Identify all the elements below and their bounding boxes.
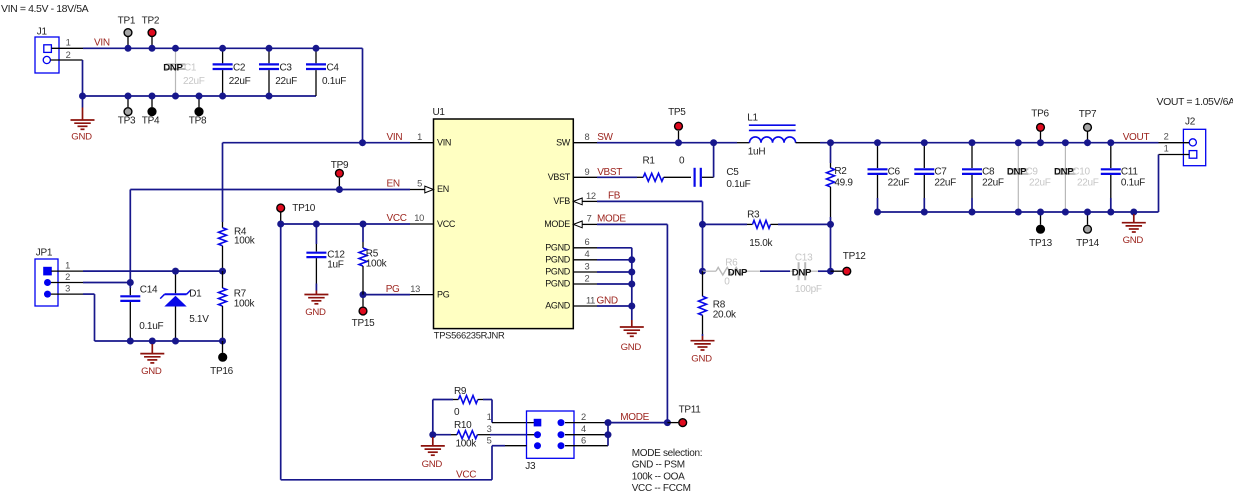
svg-text:GND: GND bbox=[621, 342, 642, 353]
capacitor C12 bbox=[315, 224, 317, 244]
svg-text:DNP: DNP bbox=[728, 268, 748, 279]
junction FB node bbox=[699, 221, 706, 228]
wire VBST to R1 bbox=[597, 176, 637, 178]
wire MODE to TP11 bbox=[608, 422, 667, 424]
capacitor C1 DNP bbox=[175, 48, 177, 63]
svg-text:49.9: 49.9 bbox=[834, 177, 853, 188]
capacitor C7 bbox=[923, 143, 925, 168]
svg-text:0: 0 bbox=[454, 407, 460, 418]
svg-text:C5: C5 bbox=[726, 167, 739, 178]
svg-text:R1: R1 bbox=[643, 156, 656, 167]
junction L1 out R2 bbox=[827, 139, 834, 146]
svg-text:FB: FB bbox=[608, 191, 621, 202]
wire VCC bottom run bbox=[281, 479, 492, 481]
capacitor C3 bbox=[268, 48, 270, 63]
wire J3 pin6 bbox=[565, 445, 608, 447]
svg-text:1: 1 bbox=[417, 132, 422, 142]
svg-text:J3: J3 bbox=[525, 461, 536, 472]
capacitor C5 bbox=[693, 168, 695, 187]
svg-text:AGND: AGND bbox=[545, 301, 571, 311]
U1 pin 8 SW stub bbox=[573, 142, 597, 144]
wire J2 pin1 stub bbox=[1159, 154, 1190, 156]
test point TP8 bbox=[198, 96, 200, 107]
svg-text:TP5: TP5 bbox=[668, 107, 686, 118]
svg-text:C8: C8 bbox=[982, 167, 995, 178]
svg-text:2: 2 bbox=[1164, 131, 1169, 141]
svg-text:C13: C13 bbox=[795, 253, 813, 264]
connector JP1 bbox=[35, 247, 58, 306]
svg-text:TP16: TP16 bbox=[210, 366, 233, 377]
svg-text:4: 4 bbox=[581, 424, 586, 434]
svg-text:TP9: TP9 bbox=[331, 160, 349, 171]
wire JP1 pin2 to EN C14 node bbox=[83, 282, 130, 284]
wire J1 pin2 stub bbox=[50, 59, 82, 61]
connector J1 bbox=[35, 27, 59, 74]
svg-text:VBST: VBST bbox=[548, 172, 571, 182]
svg-text:15.0k: 15.0k bbox=[749, 238, 773, 249]
svg-text:GND: GND bbox=[422, 459, 443, 470]
svg-text:22uF: 22uF bbox=[1029, 178, 1051, 189]
svg-text:L1: L1 bbox=[747, 113, 758, 124]
wire VOUT rail bbox=[820, 142, 1159, 144]
ground bottom-left bbox=[149, 338, 156, 345]
resistor R9 bbox=[433, 399, 453, 401]
wire VCC vertical down bbox=[280, 224, 282, 480]
capacitor C2 bbox=[222, 48, 224, 63]
wire bottom-left gnd rail bbox=[95, 340, 223, 342]
svg-text:0.1uF: 0.1uF bbox=[139, 321, 163, 332]
svg-text:22uF: 22uF bbox=[229, 76, 251, 87]
test point TP7 bbox=[1087, 132, 1089, 143]
svg-text:3: 3 bbox=[487, 424, 492, 434]
svg-text:C3: C3 bbox=[280, 62, 293, 73]
junction EN C14 bbox=[127, 279, 134, 286]
svg-text:TP12: TP12 bbox=[843, 251, 866, 262]
wire VIN junction to pin1 bbox=[363, 142, 411, 144]
svg-text:5: 5 bbox=[417, 179, 422, 189]
ground under R8 bbox=[702, 334, 704, 336]
svg-text:100pF: 100pF bbox=[795, 284, 822, 295]
test point TP2 bbox=[151, 37, 153, 48]
svg-text:EN: EN bbox=[437, 184, 449, 194]
svg-text:TP6: TP6 bbox=[1031, 109, 1049, 120]
svg-text:GND: GND bbox=[597, 295, 618, 306]
wire VCC row bbox=[281, 223, 410, 225]
svg-text:R9: R9 bbox=[454, 386, 467, 397]
svg-text:2: 2 bbox=[66, 50, 71, 60]
svg-text:R2: R2 bbox=[834, 166, 847, 177]
resistor R6 DNP bbox=[703, 270, 717, 272]
svg-text:GND -- PSM: GND -- PSM bbox=[632, 460, 685, 471]
svg-text:DNP: DNP bbox=[792, 268, 812, 279]
wire VIN rail drop to U1 row bbox=[362, 48, 364, 142]
test point TP3 bbox=[127, 96, 129, 107]
wire MODE vertical down to J3 bbox=[666, 224, 668, 422]
svg-text:VOUT: VOUT bbox=[1123, 132, 1150, 143]
ground under PGND bus bbox=[631, 316, 633, 320]
junction R3 right at R2 bbox=[827, 221, 834, 228]
test point TP4 bbox=[151, 96, 153, 107]
svg-text:PGND: PGND bbox=[545, 279, 571, 289]
svg-text:PGND: PGND bbox=[545, 243, 571, 253]
svg-text:8: 8 bbox=[585, 132, 590, 142]
wire VIN top rail bbox=[83, 47, 363, 49]
test point TP12 bbox=[831, 270, 843, 272]
test point TP5 bbox=[678, 131, 680, 143]
svg-text:3: 3 bbox=[585, 261, 590, 271]
svg-text:2: 2 bbox=[585, 273, 590, 283]
svg-text:22uF: 22uF bbox=[982, 178, 1004, 189]
test point TP13 bbox=[1040, 212, 1042, 225]
U1 pin 10 VCC stub bbox=[410, 223, 434, 225]
capacitor C6 bbox=[877, 143, 879, 168]
wire EN down to JP1 pin2 bbox=[129, 190, 131, 283]
wire C5 up to SW bbox=[713, 143, 715, 178]
diode D1 zener bbox=[175, 271, 177, 293]
svg-text:VCC: VCC bbox=[437, 219, 456, 229]
svg-text:VCC -- FCCM: VCC -- FCCM bbox=[632, 483, 691, 494]
connector J3 bbox=[525, 411, 574, 472]
svg-text:100k: 100k bbox=[366, 259, 388, 270]
svg-text:VCC: VCC bbox=[456, 469, 476, 480]
svg-text:VIN = 4.5V - 18V/5A: VIN = 4.5V - 18V/5A bbox=[1, 3, 89, 15]
wire JP1 pin1 to R4 R7 node bbox=[83, 270, 223, 272]
wire R2 bottom vertical bbox=[830, 224, 832, 271]
wire J1 pin2 down to gnd rail bbox=[82, 60, 84, 96]
wire J3 pin4 bbox=[565, 434, 608, 436]
wire VIN row left to R4 bbox=[223, 142, 363, 144]
svg-text:U1: U1 bbox=[433, 107, 446, 118]
ground under R10 bbox=[432, 435, 434, 437]
wire J3 pin3 lead bbox=[527, 434, 538, 436]
wire PGND bus vertical bbox=[631, 248, 633, 316]
capacitor C13 DNP bbox=[790, 270, 795, 272]
wire PG row bbox=[363, 294, 410, 296]
wire J3 pin5 to VCC bbox=[505, 445, 527, 447]
svg-text:VOUT = 1.05V/6A: VOUT = 1.05V/6A bbox=[1157, 96, 1233, 108]
svg-text:PG: PG bbox=[437, 289, 450, 299]
resistor R2 bbox=[830, 143, 832, 163]
svg-text:0.1uF: 0.1uF bbox=[726, 179, 750, 190]
capacitor C9 DNP bbox=[1017, 143, 1019, 168]
wire R9 right vertical to J3 pin1 bbox=[491, 400, 493, 423]
U1 pin 5 EN stub with input arrow bbox=[410, 189, 425, 191]
svg-text:TP7: TP7 bbox=[1079, 109, 1097, 120]
test point TP11 bbox=[667, 422, 678, 424]
svg-text:TP8: TP8 bbox=[189, 116, 207, 127]
wire J3 pin2 to MODE node bbox=[565, 422, 608, 424]
svg-text:TP14: TP14 bbox=[1076, 238, 1099, 249]
ground under J1 bbox=[82, 96, 84, 108]
wire FB down to divider bbox=[702, 201, 704, 224]
capacitor C11 bbox=[1110, 143, 1112, 168]
svg-text:DNP: DNP bbox=[1054, 167, 1074, 178]
wire JP1 pin1 stub bbox=[51, 270, 83, 272]
svg-text:C9: C9 bbox=[1026, 167, 1039, 178]
test point TP15 bbox=[362, 295, 364, 307]
svg-text:12: 12 bbox=[586, 191, 596, 201]
U1 pin 7 MODE stub with input arrow bbox=[573, 221, 582, 228]
svg-text:DNP: DNP bbox=[1007, 167, 1027, 178]
svg-text:1: 1 bbox=[1164, 144, 1169, 154]
wire R9 left vertical bbox=[432, 400, 434, 435]
svg-text:GND: GND bbox=[691, 354, 712, 365]
svg-text:TP13: TP13 bbox=[1029, 238, 1052, 249]
svg-text:R3: R3 bbox=[747, 210, 760, 221]
test point TP6 bbox=[1040, 132, 1042, 143]
svg-text:TP10: TP10 bbox=[292, 203, 315, 214]
svg-text:GND: GND bbox=[1123, 235, 1144, 246]
svg-text:EN: EN bbox=[387, 179, 400, 190]
svg-text:MODE: MODE bbox=[620, 412, 649, 423]
svg-text:100k: 100k bbox=[234, 236, 256, 247]
test point TP14 bbox=[1087, 212, 1089, 225]
svg-text:TP3: TP3 bbox=[118, 116, 136, 127]
resistor R4 bbox=[222, 143, 224, 222]
svg-text:TP11: TP11 bbox=[679, 404, 702, 415]
svg-text:PGND: PGND bbox=[545, 267, 571, 277]
ground at output bbox=[1130, 209, 1137, 216]
test point TP1 bbox=[127, 37, 129, 48]
wire J1 pin1 stub bbox=[51, 47, 83, 49]
resistor R1 bbox=[637, 176, 643, 178]
svg-text:10: 10 bbox=[414, 213, 424, 223]
wire J3 pin1 lead bbox=[492, 422, 538, 424]
svg-text:0: 0 bbox=[679, 156, 685, 167]
svg-text:MODE: MODE bbox=[544, 219, 570, 229]
U1 pin 9 VBST stub bbox=[573, 176, 597, 178]
junction input gnd rail at J1 bbox=[79, 93, 86, 100]
junction R4 R7 bbox=[219, 268, 226, 275]
junction MODE TP11 bbox=[664, 419, 671, 426]
svg-text:VFB: VFB bbox=[553, 196, 570, 206]
svg-text:4: 4 bbox=[585, 249, 590, 259]
capacitor C4 bbox=[315, 48, 317, 63]
junction R6 node bbox=[699, 268, 706, 275]
U1 pin 1 VIN stub bbox=[410, 142, 434, 144]
wire C13 to R2 bottom bbox=[818, 270, 831, 272]
svg-text:D1: D1 bbox=[189, 289, 202, 300]
svg-text:6: 6 bbox=[581, 435, 586, 445]
svg-text:1uH: 1uH bbox=[748, 147, 766, 158]
U1 pin 11 AGND stub bbox=[573, 305, 597, 307]
svg-text:5.1V: 5.1V bbox=[189, 314, 209, 325]
resistor R7 bbox=[222, 271, 224, 288]
svg-text:3: 3 bbox=[65, 284, 70, 294]
U1 pin 13 PG stub bbox=[410, 294, 434, 296]
svg-text:SW: SW bbox=[597, 132, 613, 143]
junction TP12 node bbox=[827, 268, 834, 275]
svg-text:JP1: JP1 bbox=[36, 247, 53, 258]
wire JP1 pin2 stub bbox=[51, 282, 83, 284]
svg-text:VIN: VIN bbox=[437, 137, 451, 147]
connector J2 bbox=[1183, 117, 1205, 166]
wire FB node down bbox=[702, 224, 704, 271]
svg-text:5: 5 bbox=[487, 435, 492, 445]
svg-text:TP1: TP1 bbox=[118, 16, 136, 27]
svg-text:VCC: VCC bbox=[387, 213, 407, 224]
wire input bottom rail bbox=[83, 95, 317, 97]
svg-text:100k: 100k bbox=[456, 439, 478, 450]
resistor R10 bbox=[429, 431, 436, 438]
svg-text:C1: C1 bbox=[184, 62, 197, 73]
wire JP1 pin3 stub bbox=[51, 293, 83, 295]
svg-text:1: 1 bbox=[66, 38, 71, 48]
svg-text:C4: C4 bbox=[327, 62, 340, 73]
capacitor C10 DNP bbox=[1064, 143, 1066, 168]
svg-text:VIN: VIN bbox=[94, 37, 110, 48]
svg-text:R10: R10 bbox=[454, 420, 472, 431]
svg-text:VIN: VIN bbox=[387, 132, 403, 143]
svg-text:TP2: TP2 bbox=[142, 16, 160, 27]
svg-text:TP15: TP15 bbox=[352, 318, 375, 329]
svg-text:6: 6 bbox=[585, 237, 590, 247]
svg-text:22uF: 22uF bbox=[1077, 178, 1099, 189]
svg-text:22uF: 22uF bbox=[934, 178, 956, 189]
svg-text:GND: GND bbox=[71, 132, 92, 143]
wire MODE row bbox=[597, 223, 667, 225]
test point TP10 bbox=[280, 212, 282, 224]
capacitor C8 bbox=[971, 143, 973, 168]
wire SW row bbox=[597, 142, 714, 144]
resistor R8 bbox=[702, 271, 704, 296]
svg-text:J1: J1 bbox=[37, 27, 48, 38]
svg-text:0.1uF: 0.1uF bbox=[322, 76, 346, 87]
wire JP1 pin3 to bottom rail bbox=[83, 293, 95, 295]
U1 pin 12 VFB stub with input arrow bbox=[573, 198, 582, 205]
svg-text:J2: J2 bbox=[1185, 117, 1196, 128]
wire J3 pins 4 6 vertical tie bbox=[607, 423, 609, 446]
svg-text:MODE selection:: MODE selection: bbox=[632, 448, 703, 459]
resistor R5 bbox=[362, 224, 364, 242]
svg-text:GND: GND bbox=[305, 307, 326, 318]
svg-text:GND: GND bbox=[141, 366, 162, 377]
junction R7 bottom TP16 bbox=[219, 338, 226, 345]
svg-text:22uF: 22uF bbox=[275, 76, 297, 87]
junction VIN rail to U1 bbox=[359, 139, 366, 146]
wire FB row bbox=[597, 200, 703, 202]
svg-text:1: 1 bbox=[65, 260, 70, 270]
svg-text:0.1uF: 0.1uF bbox=[1121, 178, 1145, 189]
wire between R6 and C13 bbox=[760, 270, 790, 272]
wire J2 pin2 stub bbox=[1159, 142, 1190, 144]
svg-text:9: 9 bbox=[585, 167, 590, 177]
capacitor C14 bbox=[129, 283, 131, 289]
svg-text:C2: C2 bbox=[233, 62, 246, 73]
svg-text:13: 13 bbox=[410, 284, 420, 294]
svg-text:C7: C7 bbox=[934, 167, 947, 178]
ground under C12 bbox=[315, 284, 317, 291]
svg-text:C6: C6 bbox=[888, 167, 901, 178]
U1 PGND pins 6 4 3 2 stubs bbox=[573, 247, 597, 249]
wire AGND to bus bbox=[597, 305, 632, 307]
op-amp U1 body bbox=[434, 119, 574, 329]
test point TP9 bbox=[338, 178, 340, 190]
wire output bottom rail bbox=[878, 211, 1159, 213]
svg-text:20.0k: 20.0k bbox=[713, 309, 737, 320]
svg-text:DNP: DNP bbox=[163, 62, 183, 73]
svg-text:100k: 100k bbox=[234, 299, 256, 310]
svg-text:22uF: 22uF bbox=[888, 178, 910, 189]
svg-text:VBST: VBST bbox=[597, 167, 622, 178]
svg-text:PGND: PGND bbox=[545, 255, 571, 265]
svg-text:PG: PG bbox=[386, 284, 400, 295]
svg-text:2: 2 bbox=[581, 412, 586, 422]
svg-text:22uF: 22uF bbox=[183, 76, 205, 87]
svg-text:R6: R6 bbox=[725, 257, 738, 268]
svg-text:C11: C11 bbox=[1121, 167, 1138, 178]
resistor R3 bbox=[703, 223, 748, 225]
svg-text:SW: SW bbox=[556, 137, 571, 147]
svg-text:100k -- OOA: 100k -- OOA bbox=[632, 471, 685, 482]
wire EN line bbox=[130, 189, 410, 191]
svg-text:TPS566235RJNR: TPS566235RJNR bbox=[434, 329, 505, 340]
svg-text:2: 2 bbox=[65, 272, 70, 282]
wire J2 pin1 down to gnd rail bbox=[1158, 155, 1160, 213]
svg-text:TP4: TP4 bbox=[142, 116, 160, 127]
svg-text:1uF: 1uF bbox=[327, 259, 344, 270]
inductor L1 bbox=[714, 142, 737, 144]
svg-text:C10: C10 bbox=[1072, 167, 1090, 178]
svg-text:MODE: MODE bbox=[597, 214, 626, 225]
svg-text:1: 1 bbox=[487, 412, 492, 422]
svg-text:C14: C14 bbox=[140, 285, 158, 296]
test point TP16 bbox=[222, 341, 224, 353]
svg-text:11: 11 bbox=[586, 295, 595, 305]
svg-text:7: 7 bbox=[587, 214, 592, 224]
